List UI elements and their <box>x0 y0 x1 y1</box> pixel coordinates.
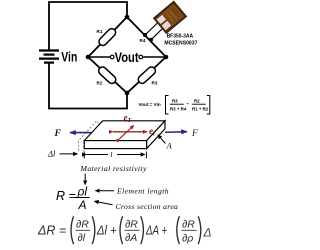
svg-text:∂l: ∂l <box>78 232 86 244</box>
svg-text:ρl: ρl <box>77 185 88 199</box>
svg-text:R3: R3 <box>152 80 158 85</box>
svg-text:R =: R = <box>56 189 76 203</box>
label Cross section area <box>95 201 113 205</box>
node bottom vertex <box>125 91 130 96</box>
bar: dashed original outline <box>79 120 158 158</box>
resistor R3 <box>137 65 157 85</box>
svg-text:Cross section area: Cross section area <box>116 202 179 211</box>
svg-text:∂R: ∂R <box>125 219 138 231</box>
svg-text:∂R: ∂R <box>182 219 195 231</box>
strain gauge R4 (BF350) <box>154 2 185 32</box>
label Element length <box>96 190 115 192</box>
svg-text:∂A: ∂A <box>125 232 137 244</box>
battery B1 <box>39 51 59 63</box>
svg-text:BF350-3AA: BF350-3AA <box>167 33 194 39</box>
svg-text:ΔR =: ΔR = <box>37 224 66 238</box>
svg-text:A: A <box>78 198 87 212</box>
wire: strain gauge leads <box>145 23 164 40</box>
svg-text:R2: R2 <box>194 98 200 103</box>
wire: Vout taps <box>88 56 166 58</box>
dimension l <box>86 154 108 156</box>
svg-text:Material resistivity: Material resistivity <box>80 164 147 173</box>
strain arrow longitudinal <box>113 131 147 133</box>
svg-text:∂R: ∂R <box>76 219 89 231</box>
node top vertex <box>125 15 130 20</box>
svg-text:F: F <box>191 128 198 138</box>
force F right arrow <box>165 131 187 134</box>
bar: 3D box top face <box>84 121 165 141</box>
resistor R2 <box>97 65 117 85</box>
resistor R1 <box>97 27 117 47</box>
svg-text:R3 + R4: R3 + R4 <box>170 106 187 111</box>
svg-text:Vout = Vin: Vout = Vin <box>139 102 161 107</box>
node left vertex <box>86 55 91 60</box>
svg-text:Δ: Δ <box>203 226 212 240</box>
svg-text:Vout: Vout <box>115 49 139 65</box>
force F left arrow <box>70 132 91 134</box>
svg-text:Δl: Δl <box>47 149 56 159</box>
formula R = rho l / A <box>56 185 90 213</box>
svg-text:l: l <box>110 150 112 159</box>
bar: right face <box>147 121 165 149</box>
bar: front face <box>84 141 146 149</box>
label A with arrow <box>158 135 166 144</box>
terminal circle right <box>139 55 143 59</box>
svg-text:R1 + R2: R1 + R2 <box>192 106 209 111</box>
svg-text:MCSENS0037: MCSENS0037 <box>164 40 197 46</box>
arrow material->rho <box>84 174 86 185</box>
svg-text:F: F <box>54 129 62 139</box>
formula Vout = Vin [R3/(R3+R4) - R2/(R1+R2)] <box>139 96 210 115</box>
svg-text:Vin: Vin <box>61 50 77 65</box>
svg-text:R3: R3 <box>172 98 178 103</box>
svg-text:ΔA +: ΔA + <box>145 224 167 238</box>
svg-text:R4: R4 <box>140 38 146 43</box>
node gauge tap 1 <box>143 33 147 37</box>
node gauge tap 2 <box>149 38 153 42</box>
strain arrow transverse <box>120 125 134 138</box>
svg-text:∂ρ: ∂ρ <box>182 233 193 245</box>
svg-text:A: A <box>166 140 173 150</box>
svg-text:−: − <box>186 102 189 108</box>
svg-text:Element length: Element length <box>116 187 169 196</box>
svg-text:R1: R1 <box>97 29 103 34</box>
wire: left loop (battery top to top wire to diamond top) <box>49 2 127 109</box>
wire: battery bottom to bottom wire to diamond bottom <box>49 64 127 109</box>
node right vertex <box>164 55 169 60</box>
formula dR = (dR/dl)dl + (dR/dA)dA + (dR/drho)drho <box>37 216 212 244</box>
terminal circle left <box>110 55 114 59</box>
svg-text:R2: R2 <box>97 81 103 86</box>
wire: bridge diamond arms <box>88 17 166 93</box>
svg-text:Δl +: Δl + <box>96 224 116 238</box>
